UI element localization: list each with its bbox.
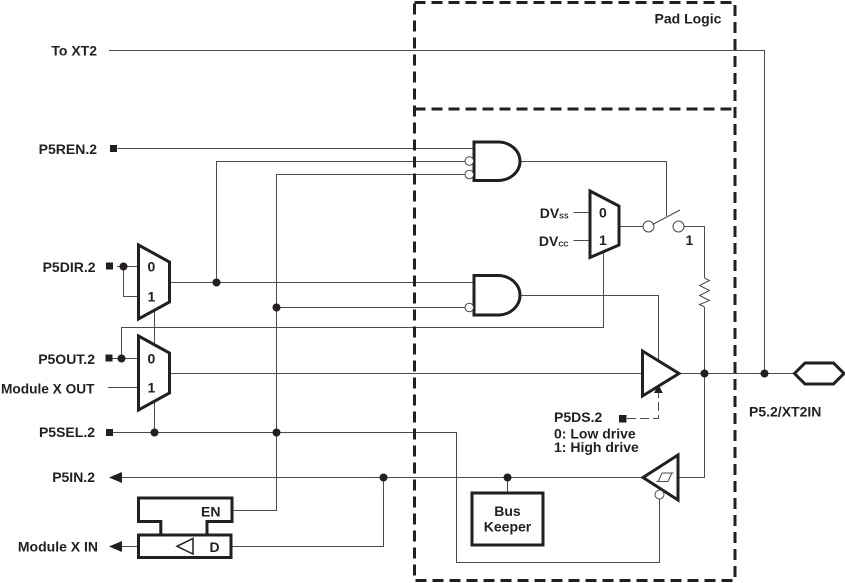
wire resistor to pad node and to input trigger <box>678 307 705 478</box>
wire EN latch enable from P5SEL net <box>232 510 277 512</box>
svg-text:P5SEL.2: P5SEL.2 <box>39 424 95 440</box>
wire P5SEL.2 input row <box>113 433 660 563</box>
svg-text:1: 1 <box>148 289 156 305</box>
svg-text:P5DS.2: P5DS.2 <box>554 409 602 425</box>
wire NAND U1 input 3 from P5SEL net <box>277 174 466 176</box>
svg-text:EN: EN <box>201 504 220 520</box>
wire output driver to pad <box>679 373 795 375</box>
EN latch <box>139 498 233 535</box>
wire mux select vertical from P5SEL up through muxes <box>154 308 156 433</box>
svg-text:P5IN.2: P5IN.2 <box>52 469 95 485</box>
wire NAND U2 input 2 from P5SEL net <box>277 307 466 309</box>
svg-text:D: D <box>210 539 220 555</box>
input schmitt trigger U7 <box>643 455 678 500</box>
wire NAND U1 input 2 from direction mux output <box>217 162 466 283</box>
wire Module X IN from D latch <box>122 546 139 548</box>
svg-text:0: 0 <box>148 351 156 367</box>
bubble U2 input 2 <box>465 303 474 312</box>
terminal square P5SEL.2 <box>106 429 113 436</box>
dashed wire P5DS.2 drive strength control <box>627 393 659 419</box>
node junction dot direction mux output <box>213 279 221 287</box>
schmitt hysteresis symbol <box>657 473 674 482</box>
wire NAND U2 output to driver enable <box>520 296 659 362</box>
svg-text:P5DIR.2: P5DIR.2 <box>43 259 96 275</box>
svg-text:P5OUT.2: P5OUT.2 <box>38 351 95 367</box>
terminal square P5REN.2 <box>110 145 117 152</box>
node junction dot P5DIR <box>120 263 128 271</box>
wire D latch input from P5IN node <box>231 478 384 547</box>
terminal square P5OUT.2 <box>106 355 113 362</box>
wire To XT2 feedback line <box>109 51 765 374</box>
svg-text:1: 1 <box>599 232 607 248</box>
svg-text:To XT2: To XT2 <box>51 43 97 59</box>
svg-text:Bus: Bus <box>494 503 521 519</box>
node junction dot select at muxes <box>151 429 159 437</box>
bubble U7 enable <box>655 490 664 499</box>
switch S1 contact right <box>673 221 684 232</box>
wire DVss input to mux <box>574 212 591 214</box>
output driver buffer U6 <box>643 351 680 396</box>
node junction dot P5SEL x277 upper <box>273 304 281 312</box>
node junction dot pad net at driver <box>701 370 709 378</box>
svg-text:1: 1 <box>148 380 156 396</box>
wire P5OUT.2 input <box>113 358 139 360</box>
node junction dot P5IN at bus keeper <box>504 474 512 482</box>
resistor R1 zigzag <box>700 278 710 307</box>
wire P5REN.2 input line <box>118 148 475 150</box>
wire direction mux output to NAND U2 input 1 <box>170 282 475 284</box>
arrowhead P5IN.2 output <box>109 472 122 483</box>
bubble U1 input 2 <box>465 157 474 166</box>
wire P5SEL vertical net x=277 <box>232 175 277 511</box>
bubble U1 input 3 <box>465 170 474 179</box>
bus keeper box <box>472 493 543 545</box>
svg-text:Pad Logic: Pad Logic <box>655 11 722 27</box>
wire P5DIR.2 input <box>117 266 139 268</box>
switch S1 contact left <box>643 221 654 232</box>
node junction dot pad net at To XT2 <box>761 370 769 378</box>
svg-text:1: 1 <box>686 232 694 248</box>
svg-text:DVSS: DVSS <box>540 205 569 221</box>
nand gate U1 <box>474 142 520 181</box>
mux U4 P5OUT output select <box>139 336 170 410</box>
terminal square P5DS.2 <box>619 415 627 423</box>
node junction dot P5IN at D latch <box>380 474 388 482</box>
svg-text:Module X IN: Module X IN <box>18 539 98 555</box>
terminal square P5DIR.2 <box>106 263 113 270</box>
mux U5 DVss/DVcc pull select <box>590 191 619 258</box>
pad P5.2/XT2IN hexagon <box>795 363 845 384</box>
wire Module X OUT input <box>108 387 139 389</box>
mux U3 P5DIR direction select <box>139 245 170 319</box>
wire P5IN.2 row <box>122 477 643 479</box>
wire pull mux output to switch <box>619 226 643 228</box>
svg-text:DVCC: DVCC <box>539 233 569 249</box>
svg-text:0: 0 <box>148 259 156 275</box>
svg-text:0: 0 <box>599 205 607 221</box>
D latch clock triangle <box>177 539 193 555</box>
svg-text:Keeper: Keeper <box>484 519 532 535</box>
wire bus keeper to P5IN node <box>507 478 509 494</box>
Pad Logic inner dashed divider <box>415 108 736 111</box>
wire P5DIR.2 branch to mux input 1 <box>124 267 139 297</box>
wire output mux to output driver <box>170 373 642 375</box>
node junction dot P5OUT <box>118 355 126 363</box>
wire DVcc input to mux <box>574 240 591 242</box>
node junction dot P5SEL x277 lower <box>273 429 281 437</box>
svg-text:P5.2/XT2IN: P5.2/XT2IN <box>749 404 821 420</box>
wire NAND U1 output to switch control <box>520 162 667 217</box>
svg-text:P5REN.2: P5REN.2 <box>39 141 98 157</box>
arrowhead Module X IN output <box>109 541 122 552</box>
svg-text:1: High drive: 1: High drive <box>554 439 639 455</box>
switch S1 lever <box>653 210 681 225</box>
nand gate U2 <box>474 276 520 316</box>
arrowhead P5DS.2 into driver <box>654 385 663 394</box>
Pad Logic dashed box <box>415 3 736 581</box>
svg-text:Module X OUT: Module X OUT <box>1 381 95 397</box>
D latch <box>139 535 232 558</box>
wire P5OUT.2 branch to pull resistor mux select <box>122 250 604 359</box>
wire switch to resistor <box>684 227 705 279</box>
